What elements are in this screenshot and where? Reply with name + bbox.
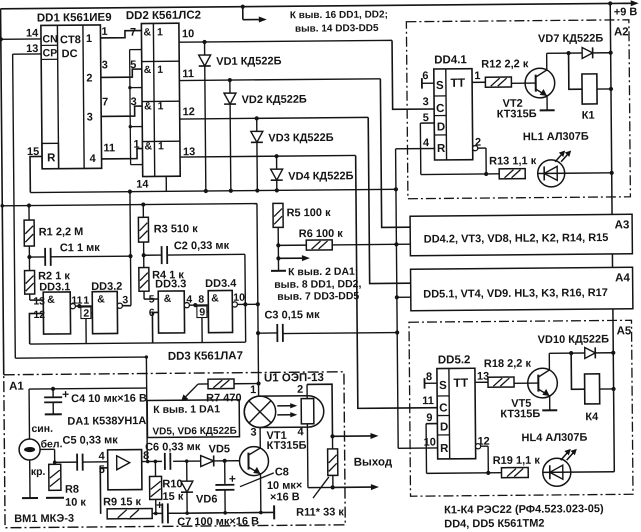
svg-text:14: 14 xyxy=(136,178,149,190)
svg-text:2: 2 xyxy=(83,308,89,320)
svg-text:3: 3 xyxy=(423,96,429,108)
svg-text:HL4 АЛ307Б: HL4 АЛ307Б xyxy=(521,432,587,445)
svg-text:12: 12 xyxy=(33,309,45,321)
svg-text:DD3.4: DD3.4 xyxy=(205,278,237,290)
svg-text:3: 3 xyxy=(250,427,256,439)
svg-text:5: 5 xyxy=(130,59,136,71)
svg-text:VD1 КД522Б: VD1 КД522Б xyxy=(216,55,281,68)
svg-text:C7 100 мк×16 В: C7 100 мк×16 В xyxy=(177,516,259,529)
svg-text:CN: CN xyxy=(42,33,57,45)
svg-text:R9 15 к: R9 15 к xyxy=(103,496,142,508)
svg-text:КТ315Б: КТ315Б xyxy=(267,440,307,452)
svg-text:VD6: VD6 xyxy=(196,493,218,505)
svg-text:К выв. 1 DA1: К выв. 1 DA1 xyxy=(153,403,220,416)
svg-text:A2: A2 xyxy=(614,26,629,38)
svg-text:КТ315Б: КТ315Б xyxy=(500,408,540,420)
svg-text:7: 7 xyxy=(102,96,108,108)
svg-text:HL1 АЛ307Б: HL1 АЛ307Б xyxy=(523,131,589,144)
svg-text:4: 4 xyxy=(186,294,192,306)
svg-text:К1-К4 РЭС22 (РФ4.523.023-05): К1-К4 РЭС22 (РФ4.523.023-05) xyxy=(444,503,604,516)
svg-text:выв. 14 DD3-DD5: выв. 14 DD3-DD5 xyxy=(295,23,379,35)
svg-text:син.: син. xyxy=(31,423,53,435)
svg-text:10: 10 xyxy=(233,292,245,304)
svg-text:10 к: 10 к xyxy=(65,497,86,509)
svg-text:13: 13 xyxy=(33,295,45,307)
svg-text:2: 2 xyxy=(297,384,303,396)
svg-text:&: & xyxy=(144,140,152,152)
svg-text:R5 100 к: R5 100 к xyxy=(286,207,331,219)
svg-text:14: 14 xyxy=(26,27,39,39)
svg-text:бел.: бел. xyxy=(40,438,62,450)
svg-text:11: 11 xyxy=(182,68,194,80)
svg-text:1: 1 xyxy=(157,64,163,76)
svg-text:DD4, DD5 К561ТМ2: DD4, DD5 К561ТМ2 xyxy=(444,518,544,531)
svg-text:A1: A1 xyxy=(9,381,24,393)
svg-text:1: 1 xyxy=(158,140,164,152)
svg-text:кр.: кр. xyxy=(31,466,46,478)
svg-text:DD4.2, VT3, VD8, HL2, K2, R14,: DD4.2, VT3, VD8, HL2, K2, R14, R15 xyxy=(424,232,609,246)
svg-text:15 к: 15 к xyxy=(162,491,183,503)
svg-text:VD5: VD5 xyxy=(209,443,231,455)
svg-text:К1: К1 xyxy=(582,110,595,122)
svg-text:+9 В: +9 В xyxy=(614,6,638,18)
svg-text:DD4.1: DD4.1 xyxy=(434,54,467,66)
svg-text:выв. 8 DD1, DD2,: выв. 8 DD1, DD2, xyxy=(274,278,361,291)
svg-text:7: 7 xyxy=(130,27,136,39)
svg-text:R: R xyxy=(440,443,449,455)
svg-text:&: & xyxy=(211,292,219,304)
svg-text:4: 4 xyxy=(99,450,106,462)
svg-text:11: 11 xyxy=(422,395,434,407)
svg-text:&: & xyxy=(164,293,172,305)
svg-text:1: 1 xyxy=(133,139,139,151)
svg-text:C: C xyxy=(439,402,447,414)
svg-text:&: & xyxy=(144,64,152,76)
svg-text:1: 1 xyxy=(101,26,107,38)
svg-text:2: 2 xyxy=(86,72,92,84)
svg-text:&: & xyxy=(144,100,152,112)
svg-text:A3: A3 xyxy=(615,219,630,231)
svg-text:&: & xyxy=(143,26,151,38)
svg-text:3: 3 xyxy=(102,59,108,71)
svg-text:10: 10 xyxy=(423,436,435,448)
svg-text:CP: CP xyxy=(43,47,58,59)
svg-text:&: & xyxy=(97,293,105,305)
svg-text:КТ315Б: КТ315Б xyxy=(497,108,537,120)
svg-text:DD3.3: DD3.3 xyxy=(155,278,186,290)
svg-text:R8: R8 xyxy=(65,484,79,496)
svg-text:R7 470: R7 470 xyxy=(206,392,242,404)
svg-text:×16 В: ×16 В xyxy=(270,491,300,503)
svg-text:3: 3 xyxy=(87,111,93,123)
svg-text:3: 3 xyxy=(122,294,128,306)
svg-text:1: 1 xyxy=(157,26,163,38)
svg-text:D: D xyxy=(440,421,448,433)
svg-text:8: 8 xyxy=(198,294,204,306)
svg-text:6: 6 xyxy=(149,307,155,319)
svg-text:выв. 7 DD3-DD5: выв. 7 DD3-DD5 xyxy=(277,290,359,303)
svg-text:R18 2,2 к: R18 2,2 к xyxy=(484,358,532,370)
svg-text:R13 1,1 к: R13 1,1 к xyxy=(489,155,537,167)
svg-text:К4: К4 xyxy=(585,411,599,423)
svg-text:4: 4 xyxy=(90,153,97,165)
svg-text:R11* 33 к: R11* 33 к xyxy=(296,506,344,518)
svg-text:10: 10 xyxy=(182,28,194,40)
svg-text:К выв. 2 DA1;: К выв. 2 DA1; xyxy=(288,266,358,279)
svg-text:1: 1 xyxy=(86,33,92,45)
svg-text:A4: A4 xyxy=(615,272,630,284)
svg-text:1: 1 xyxy=(474,70,480,82)
svg-text:R: R xyxy=(437,143,446,155)
svg-text:C1 1 мк: C1 1 мк xyxy=(60,242,101,254)
svg-text:5: 5 xyxy=(149,293,155,305)
svg-text:R3 510 к: R3 510 к xyxy=(154,223,199,235)
svg-text:6: 6 xyxy=(422,70,428,82)
svg-text:3: 3 xyxy=(131,96,137,108)
svg-text:VD2 КД522Б: VD2 КД522Б xyxy=(241,94,306,107)
svg-text:1: 1 xyxy=(83,295,89,307)
svg-text:8: 8 xyxy=(426,371,432,383)
svg-text:VD10 КД522Б: VD10 КД522Б xyxy=(538,333,610,346)
svg-text:ВМ1 МКЭ-3: ВМ1 МКЭ-3 xyxy=(14,513,74,526)
svg-text:TT: TT xyxy=(453,376,468,390)
svg-text:R12 2,2 к: R12 2,2 к xyxy=(481,58,529,70)
svg-text:+: + xyxy=(229,472,236,486)
svg-text:Выход: Выход xyxy=(354,456,393,468)
svg-text:S: S xyxy=(439,380,447,392)
svg-text:11: 11 xyxy=(71,295,82,307)
svg-text:DD1 К561ИЕ9: DD1 К561ИЕ9 xyxy=(37,12,112,25)
svg-text:C2 0,33 мк: C2 0,33 мк xyxy=(174,240,230,252)
svg-text:10 мк×: 10 мк× xyxy=(267,480,302,492)
svg-text:R10: R10 xyxy=(162,478,182,490)
svg-text:1: 1 xyxy=(158,100,164,112)
svg-text:DD3 К561ЛА7: DD3 К561ЛА7 xyxy=(168,350,243,363)
svg-text:4: 4 xyxy=(297,426,304,438)
svg-text:9: 9 xyxy=(426,412,432,424)
svg-text:C6 0,33 мк: C6 0,33 мк xyxy=(145,441,201,453)
svg-text:DA1 К538УН1А: DA1 К538УН1А xyxy=(67,415,146,428)
svg-text:VD5, VD6 КД522Б: VD5, VD6 КД522Б xyxy=(152,426,236,438)
svg-text:R19 1,1 к: R19 1,1 к xyxy=(493,455,541,467)
svg-text:4: 4 xyxy=(423,137,430,149)
svg-text:К выв. 16 DD1, DD2;: К выв. 16 DD1, DD2; xyxy=(290,9,388,21)
svg-text:+: + xyxy=(62,387,69,401)
svg-text:R1 2,2 М: R1 2,2 М xyxy=(39,226,84,238)
svg-text:DD5.1, VT4, VD9. HL3, K3, R16,: DD5.1, VT4, VD9. HL3, K3, R16, R17 xyxy=(423,287,608,301)
svg-text:C: C xyxy=(436,103,444,115)
svg-text:CT8: CT8 xyxy=(60,34,81,46)
svg-text:9: 9 xyxy=(199,307,205,319)
svg-text:DD5.2: DD5.2 xyxy=(438,354,471,366)
svg-text:C5 0,33 мк: C5 0,33 мк xyxy=(62,434,118,446)
svg-text:11: 11 xyxy=(103,142,115,154)
svg-text:C3 0,15 мк: C3 0,15 мк xyxy=(264,309,320,321)
svg-text:A5: A5 xyxy=(617,325,632,337)
svg-text:1: 1 xyxy=(250,384,256,396)
svg-text:C8: C8 xyxy=(275,466,289,478)
svg-text:VD3 КД522Б: VD3 КД522Б xyxy=(268,132,333,145)
svg-text:12: 12 xyxy=(183,106,195,118)
svg-text:C4 10 мк×16 В: C4 10 мк×16 В xyxy=(71,393,147,406)
svg-text:S: S xyxy=(436,80,444,92)
svg-text:U1 ОЭП-13: U1 ОЭП-13 xyxy=(264,372,324,385)
svg-text:DD2 К561ЛС2: DD2 К561ЛС2 xyxy=(126,10,201,23)
svg-text:D: D xyxy=(437,121,445,133)
svg-text:R: R xyxy=(47,152,56,164)
svg-text:&: & xyxy=(47,294,55,306)
svg-text:DC: DC xyxy=(62,48,78,60)
svg-text:VD7 КД522Б: VD7 КД522Б xyxy=(538,33,603,46)
svg-text:R6 100 к: R6 100 к xyxy=(299,228,344,240)
svg-text:VD4 КД522Б: VD4 КД522Б xyxy=(288,170,353,183)
svg-text:13: 13 xyxy=(26,43,38,55)
svg-text:TT: TT xyxy=(450,76,465,90)
